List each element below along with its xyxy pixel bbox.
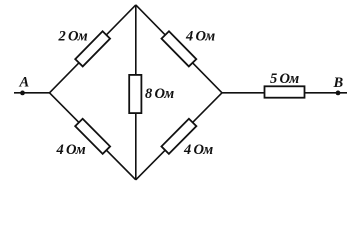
- wire: left node to bottom vertex: [50, 93, 136, 180]
- resistor 4 Ом (bottom-left branch): [75, 119, 110, 154]
- wire: top vertex to right node: [136, 5, 222, 93]
- node: terminal B dot: [336, 91, 341, 96]
- wire: terminal A lead: [14, 92, 50, 94]
- resistor 5 Ом (output branch): [265, 86, 305, 97]
- svg-text:2 Ом: 2 Ом: [58, 29, 88, 45]
- svg-text:4 Ом: 4 Ом: [56, 142, 86, 158]
- resistor 2 Ом (top-left branch): [75, 31, 110, 66]
- wire: left node to top vertex: [50, 5, 136, 93]
- wire: right node to terminal B: [222, 92, 347, 94]
- svg-text:4 Ом: 4 Ом: [183, 142, 213, 158]
- node: terminal A dot: [20, 91, 25, 96]
- resistor 8 Ом (center branch): [129, 75, 141, 113]
- wire: bottom vertex to right node: [136, 93, 222, 180]
- svg-text:8 Ом: 8 Ом: [145, 86, 174, 102]
- resistor 4 Ом (bottom-right branch): [161, 119, 196, 154]
- svg-text:B: B: [333, 75, 344, 91]
- wire: center vertical branch: [135, 5, 137, 180]
- svg-text:A: A: [19, 75, 30, 91]
- svg-text:4 Ом: 4 Ом: [185, 29, 215, 45]
- resistor 4 Ом (top-right branch): [161, 31, 196, 66]
- svg-text:5 Ом: 5 Ом: [270, 71, 299, 87]
